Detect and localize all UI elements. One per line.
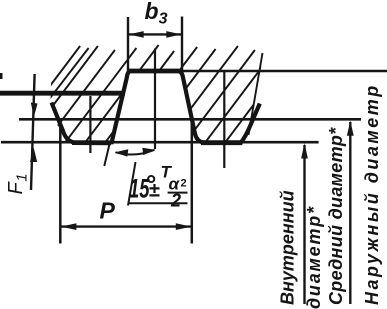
P right extension line <box>191 118 194 244</box>
minor diameter line <box>1 141 319 144</box>
outer diameter line <box>155 70 387 73</box>
P left extension line <box>59 120 62 244</box>
arc right arrowhead <box>142 148 155 155</box>
angle leader line <box>128 162 136 206</box>
F1 up arrowhead <box>30 148 37 163</box>
svg-text:P: P <box>100 198 116 224</box>
profile: groove left flank <box>111 71 131 144</box>
svg-text:2: 2 <box>181 178 187 190</box>
profile: left tooth left flank <box>52 103 75 143</box>
hatching <box>7 45 335 143</box>
F1 down arrowhead <box>31 103 38 118</box>
svg-text:F1: F1 <box>5 173 31 194</box>
pitch diameter line <box>19 118 361 121</box>
profile: groove right flank <box>178 71 204 143</box>
b3 right arrowhead <box>166 31 181 38</box>
pitch diameter arrow <box>349 122 351 304</box>
profile: groove crest <box>129 69 179 74</box>
tooth centerline <box>223 71 225 168</box>
left tooth centerline <box>89 96 91 153</box>
profile: right tooth bottom <box>201 140 242 145</box>
b3 dimension line <box>129 33 181 35</box>
svg-text:b3: b3 <box>145 0 168 28</box>
b3 left arrowhead <box>129 31 144 38</box>
groove centerline <box>154 49 156 150</box>
b3 left extension line <box>127 17 129 73</box>
svg-text:Внутренний: Внутренний <box>278 190 298 305</box>
svg-text:Наружный диаметр: Наружный диаметр <box>362 83 382 305</box>
hatch boundary stroke <box>249 53 263 135</box>
profile: left crest line <box>0 91 125 96</box>
left edge mark <box>0 73 3 79</box>
F1 dimension line <box>31 74 35 190</box>
P left arrowhead <box>61 223 76 230</box>
P right arrowhead <box>176 223 191 230</box>
svg-text:Средний диаметр*: Средний диаметр* <box>326 127 346 305</box>
svg-text:±: ± <box>149 180 160 202</box>
P dimension line <box>61 225 191 227</box>
profile: right tooth right flank <box>241 104 260 143</box>
angle arc <box>116 150 155 155</box>
profile: left tooth bottom <box>72 140 111 145</box>
svg-text:диаметр*: диаметр* <box>304 205 324 309</box>
b3 right extension line <box>181 17 183 74</box>
flank extension line <box>104 142 110 166</box>
inner diameter arrow <box>303 145 305 304</box>
angle text shelf <box>129 202 188 204</box>
svg-text:2: 2 <box>170 191 181 211</box>
arc left arrowhead <box>115 149 129 156</box>
fraction bar <box>168 192 188 194</box>
